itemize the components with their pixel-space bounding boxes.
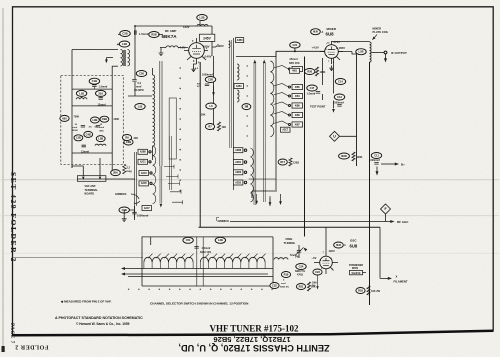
- svg-text:C24: C24: [299, 264, 304, 268]
- wire plate feed: [332, 41, 370, 44]
- capacitor 1.0mmf: [194, 247, 198, 249]
- svg-text:SLEEVE: SLEEVE: [351, 273, 361, 275]
- capacitor C1B: [89, 78, 99, 84]
- capacitor C2B: [120, 31, 130, 37]
- tube V1 6BK7A: [189, 43, 205, 59]
- svg-text:10K: 10K: [222, 126, 227, 129]
- contact box: [290, 68, 300, 73]
- svg-text:CHANNEL SELECTOR SWITCH SHOWN: CHANNEL SELECTOR SWITCH SHOWN IN CHANNEL…: [150, 302, 249, 306]
- capacitor: [82, 145, 86, 147]
- svg-text:C17: C17: [310, 86, 315, 90]
- svg-text:C2B: C2B: [122, 31, 127, 35]
- switch contact 4/B6: [292, 103, 303, 108]
- svg-text:MIXER: MIXER: [373, 27, 382, 31]
- svg-text:4/B4: 4/B4: [295, 95, 301, 98]
- resistor R2B: [149, 32, 159, 38]
- switch output pair wires: [135, 152, 137, 218]
- svg-text:IRON: IRON: [352, 267, 358, 270]
- svg-text:1.0mmf: 1.0mmf: [307, 93, 316, 96]
- svg-text:FILAMENT: FILAMENT: [394, 280, 408, 284]
- rotor contact dots: [247, 65, 248, 66]
- svg-text:6BK7A: 6BK7A: [162, 34, 178, 39]
- capacitor C13 1000mmf: [334, 94, 344, 100]
- capacitor C24: [296, 264, 306, 270]
- svg-text:28A: 28A: [113, 171, 118, 175]
- ground: [159, 50, 164, 56]
- svg-text:230K: 230K: [114, 118, 120, 121]
- svg-text:245V: 245V: [203, 37, 211, 41]
- tube V2 mixer: [325, 45, 339, 59]
- svg-text:R18: R18: [358, 288, 363, 292]
- filament wire: [363, 227, 390, 278]
- wire from frame to strip: [13, 257, 143, 259]
- svg-text:6U8: 6U8: [350, 243, 358, 248]
- wire osc feed: [199, 226, 381, 228]
- svg-text:A2C3: A2C3: [141, 172, 148, 175]
- svg-text:mmf: mmf: [73, 127, 78, 129]
- dashed enclosure: RF tuning strip: [61, 75, 124, 164]
- svg-text:R30: R30: [307, 69, 312, 73]
- svg-text:A3C7: A3C7: [282, 129, 289, 132]
- switch contact boxes A2: [138, 149, 148, 154]
- svg-text:750K: 750K: [74, 116, 80, 119]
- wire antenna feed: [72, 50, 118, 169]
- resistor R7 140K: [205, 124, 214, 130]
- capacitor C17: [307, 85, 317, 91]
- wire: [252, 51, 277, 198]
- svg-text:ZENITH CHASSIS 17B20, Q, U, UD: ZENITH CHASSIS 17B20, Q, U, UD,: [178, 343, 329, 353]
- svg-text:R2B: R2B: [151, 32, 156, 36]
- capacitor C6B: [124, 139, 133, 145]
- switch contact box low: [281, 127, 291, 132]
- contact box top: [236, 38, 244, 43]
- svg-text:22K: 22K: [134, 137, 139, 140]
- svg-text:A: A: [322, 30, 324, 34]
- switch contact 4/B4: [292, 66, 303, 71]
- svg-text:C11: C11: [374, 153, 379, 157]
- svg-text:mmf: mmf: [100, 127, 105, 129]
- wiper pair B: [263, 62, 265, 202]
- svg-text:1.5mmf: 1.5mmf: [139, 32, 149, 36]
- inductor L3B: [74, 135, 83, 141]
- svg-text:2M: 2M: [245, 105, 249, 109]
- svg-text:140V: 140V: [205, 55, 212, 59]
- switch contact 4/B4: [292, 93, 303, 98]
- wire B+ feed column: [212, 41, 218, 56]
- svg-text:A2B8: A2B8: [235, 149, 242, 152]
- capacitor C9: [242, 104, 251, 110]
- svg-text:A: A: [344, 244, 346, 247]
- fold line (light): [1, 179, 499, 181]
- svg-text:L1B: L1B: [79, 91, 84, 95]
- stator contact line right-mid: [250, 148, 253, 202]
- IF output terminal: [372, 52, 385, 54]
- svg-text:A2C5: A2C5: [141, 182, 148, 185]
- RF plate coil (tall): [153, 75, 155, 146]
- svg-text:R9: R9: [125, 135, 129, 139]
- svg-text:FOLDER 2: FOLDER 2: [15, 344, 49, 351]
- wiper pair left with arrow: [160, 166, 162, 203]
- svg-text:TEST POINT: TEST POINT: [310, 105, 326, 109]
- mixer plate coil L20: [370, 42, 372, 62]
- svg-text:140V: 140V: [183, 25, 190, 29]
- osc label 6U8: [334, 242, 344, 248]
- svg-text:X: X: [396, 275, 398, 279]
- svg-text:RF AGC: RF AGC: [397, 220, 409, 224]
- open contact stubs: [164, 165, 183, 205]
- mixer input coil assembly: [233, 38, 235, 190]
- svg-text:12mmf: 12mmf: [98, 103, 106, 106]
- svg-text:3% NPO: 3% NPO: [134, 89, 144, 92]
- svg-text:5%: 5%: [312, 286, 315, 288]
- svg-text:4/B5: 4/B5: [295, 86, 301, 89]
- svg-text:TUNING: TUNING: [284, 241, 296, 245]
- svg-text:L2B: L2B: [359, 50, 364, 54]
- junction dots: [294, 50, 296, 52]
- capacitor C25: [270, 283, 279, 289]
- svg-text:+4.5V: +4.5V: [312, 46, 320, 50]
- svg-text:L25: L25: [138, 104, 143, 108]
- svg-text:470Ω: 470Ω: [297, 274, 303, 277]
- tube V3 oscillator: [320, 256, 333, 269]
- svg-text:C1B: C1B: [92, 79, 97, 83]
- inductor L9B: [91, 117, 100, 123]
- switch shaft bar: [169, 98, 176, 159]
- svg-text:L9B: L9B: [92, 118, 97, 122]
- wiper pair A: [254, 62, 256, 205]
- resistor R19: [281, 272, 290, 278]
- svg-text:OSC: OSC: [350, 239, 357, 243]
- svg-text:L2B: L2B: [122, 42, 127, 46]
- capacitor C9B 1000mmf: [119, 207, 129, 213]
- mixer label: [311, 29, 321, 35]
- svg-text:160V: 160V: [203, 45, 210, 49]
- switch feed bus pair: [230, 40, 232, 148]
- antenna transformer L1: [121, 50, 123, 67]
- wire ground bus: [77, 178, 135, 180]
- svg-text:A2D3: A2D3: [235, 171, 242, 174]
- osc coil: [274, 258, 288, 260]
- svg-text:C13: C13: [337, 95, 342, 99]
- transformer tap arrow: [106, 58, 113, 60]
- grid coil: [166, 46, 178, 48]
- strip baseline: [142, 237, 273, 286]
- scanned page left edge shadow: [2, 8, 4, 352]
- svg-text:A2D5: A2D5: [235, 181, 242, 184]
- coil L6: [206, 103, 216, 109]
- capacitor C21 25mmf: [290, 42, 300, 48]
- svg-text:120V: 120V: [329, 249, 335, 253]
- contact boxes right of coil: [233, 148, 243, 153]
- stator contact line left: [153, 146, 156, 204]
- svg-text:4/B6: 4/B6: [295, 104, 301, 107]
- shaft pair: [169, 136, 171, 190]
- svg-text:L3B: L3B: [76, 136, 81, 140]
- turret coil bank: [144, 257, 193, 262]
- contact box: [234, 84, 244, 89]
- svg-text:1.5mmf: 1.5mmf: [99, 86, 108, 89]
- svg-text:23A: 23A: [98, 91, 103, 95]
- VHF antenna terminal board: [77, 176, 106, 182]
- svg-text:R21: R21: [299, 284, 304, 288]
- long bus to oscillator: [304, 57, 306, 237]
- svg-text:25mmf: 25mmf: [290, 58, 298, 61]
- resistor R30 100K: [305, 69, 315, 75]
- diamond U test jack: [330, 131, 340, 141]
- switch contact 4/B5: [292, 84, 303, 89]
- svg-text:R19: R19: [284, 272, 289, 276]
- svg-text:C4B: C4B: [86, 132, 91, 136]
- inductor L5B: [96, 136, 105, 142]
- svg-text:PAGE 7: PAGE 7: [9, 323, 14, 344]
- svg-text:C21: C21: [293, 43, 298, 47]
- wire: [128, 34, 152, 96]
- stator scalloped contact line: [270, 61, 274, 137]
- svg-text:4/B7: 4/B7: [295, 123, 301, 126]
- svg-text:◆ MEASURED FROM PIN 3 OF VHF.: ◆ MEASURED FROM PIN 3 OF VHF.: [60, 300, 112, 304]
- wire ladder rail left: [111, 66, 113, 172]
- switch wafer lines: [160, 61, 162, 166]
- svg-text:1000mmf: 1000mmf: [333, 101, 344, 104]
- resistor R21 10K: [296, 284, 305, 290]
- svg-text:R7: R7: [208, 124, 212, 128]
- svg-text:GIMMICK: GIMMICK: [115, 192, 127, 196]
- capacitor C9: [100, 116, 109, 122]
- svg-text:1.0mmf: 1.0mmf: [202, 247, 211, 250]
- svg-text:C14: C14: [338, 79, 343, 83]
- diamond F AGC: [381, 204, 391, 214]
- cathode ground: [191, 67, 195, 72]
- svg-text:L2B: L2B: [200, 15, 205, 19]
- svg-text:GIMMICK: GIMMICK: [218, 219, 230, 223]
- svg-text:−5V: −5V: [312, 256, 317, 260]
- capacitor C4B: [84, 131, 93, 137]
- svg-text:C9B: C9B: [102, 117, 107, 121]
- svg-text:N150 10%: N150 10%: [200, 251, 212, 254]
- inductor L1B: [76, 90, 86, 96]
- fold line (light): [1, 252, 499, 254]
- capacitor C11 1000mmf: [371, 153, 381, 159]
- svg-text:120Ω: 120Ω: [293, 162, 299, 165]
- svg-text:C51: C51: [186, 238, 191, 242]
- svg-text:NPO 10%: NPO 10%: [289, 62, 301, 65]
- svg-text:IF OUTPUT: IF OUTPUT: [391, 51, 407, 55]
- B+ arrow: [381, 163, 396, 165]
- svg-text:C23: C23: [315, 270, 320, 274]
- resistor 750K: [60, 115, 69, 121]
- svg-text:A3B0: A3B0: [237, 39, 244, 42]
- B+ box 245V: [200, 34, 215, 41]
- svg-text:4/B1: 4/B1: [292, 70, 298, 73]
- svg-text:A3B1: A3B1: [236, 85, 243, 88]
- wafer contact dots: [179, 67, 181, 69]
- wire top bus: [135, 21, 212, 34]
- svg-text:PLATE COIL: PLATE COIL: [373, 30, 389, 34]
- strip bus lines: [124, 269, 273, 277]
- svg-text:6U8: 6U8: [336, 243, 341, 247]
- wire ladder rungs: [72, 89, 112, 153]
- ground: [329, 66, 333, 71]
- svg-text:L5B: L5B: [98, 137, 103, 141]
- inductor L3B: [215, 237, 225, 243]
- capacitor C14: [335, 79, 345, 85]
- svg-text:VHF TUNER #175-102: VHF TUNER #175-102: [209, 324, 299, 334]
- svg-text:VHF ANT.: VHF ANT.: [85, 184, 97, 188]
- svg-text:A2B8: A2B8: [140, 151, 147, 154]
- svg-text:C28: C28: [208, 77, 213, 81]
- svg-text:N300: N300: [73, 130, 79, 132]
- resistor R9 22K: [122, 135, 131, 141]
- resistor R5 2.2meg: [111, 170, 121, 176]
- channel strip enclosure: [142, 237, 273, 286]
- svg-text:165V: 165V: [339, 46, 346, 50]
- capacitor C51: [183, 237, 193, 243]
- svg-text:A2C1: A2C1: [140, 161, 147, 164]
- svg-text:6U8: 6U8: [326, 32, 335, 37]
- ground: [375, 171, 378, 175]
- switch top rail: [236, 51, 276, 56]
- svg-text:B+: B+: [401, 163, 405, 167]
- svg-text:N330 5%: N330 5%: [280, 287, 289, 289]
- coil L2B on top bus: [197, 24, 208, 26]
- wire transformer bottom tap: [112, 65, 118, 67]
- svg-text:MIXER: MIXER: [327, 27, 337, 31]
- svg-text:mmf: mmf: [281, 283, 286, 285]
- switch contact 4/B6: [292, 112, 303, 117]
- svg-text:6U8: 6U8: [313, 30, 318, 34]
- svg-text:© Howard W. Sams & Co., Inc. 1: © Howard W. Sams & Co., Inc. 1959: [76, 322, 130, 326]
- resistor R16 100K: [339, 153, 350, 159]
- svg-text:C26: C26: [139, 71, 144, 75]
- svg-text:10K 2W: 10K 2W: [371, 290, 381, 293]
- svg-text:6000: 6000: [341, 154, 347, 158]
- svg-text:1000mmf: 1000mmf: [202, 74, 213, 77]
- resistor R18 10K 2W: [356, 288, 365, 294]
- svg-text:A2C7: A2C7: [144, 207, 151, 210]
- wire: [152, 68, 154, 160]
- svg-text:F: F: [384, 207, 386, 211]
- svg-text:1000mmf: 1000mmf: [369, 159, 380, 162]
- resistor R17 120K: [278, 159, 287, 165]
- wire mixer grid: [276, 50, 325, 52]
- svg-text:5mmf: 5mmf: [290, 254, 297, 257]
- svg-text:3%: 3%: [89, 126, 92, 128]
- coil tap leads: [148, 254, 153, 259]
- svg-text:meg: meg: [127, 170, 133, 173]
- svg-text:270V: 270V: [334, 40, 341, 44]
- rivet dots: [128, 288, 130, 290]
- svg-text:100K: 100K: [357, 156, 363, 159]
- svg-text:●+20V: ●+20V: [216, 44, 224, 48]
- svg-text:TERMINAL: TERMINAL: [85, 188, 99, 192]
- coil L8: [237, 90, 239, 102]
- svg-text:5%: 5%: [95, 126, 98, 128]
- wire: [322, 58, 324, 100]
- switch contact 4/B7: [292, 122, 303, 127]
- wire: [118, 34, 163, 36]
- corner printing mark: [2, 346, 5, 352]
- coil: [95, 144, 106, 146]
- capacitor C23: [313, 269, 322, 275]
- svg-text:BOARD: BOARD: [85, 192, 95, 196]
- svg-text:600: 600: [62, 116, 67, 120]
- svg-text:12mmf: 12mmf: [81, 151, 89, 154]
- wire stubs below switch: [249, 179, 276, 206]
- svg-text:SET 429 FOLDER 2: SET 429 FOLDER 2: [9, 172, 18, 263]
- capacitor 23A: [96, 90, 106, 96]
- svg-text:10M: 10M: [312, 283, 317, 285]
- svg-text:R17: R17: [280, 160, 285, 164]
- junction arrow: [213, 86, 215, 92]
- turret coil stub leads: [143, 262, 145, 268]
- svg-text:A PHOTOFACT STANDARD NOTATI: A PHOTOFACT STANDARD NOTATION SCHEMATIC: [55, 316, 143, 320]
- wire mixer plate bus: [356, 54, 358, 166]
- wire mid bus: [199, 62, 201, 227]
- coil L7: [237, 64, 239, 80]
- fine tuning variable capacitor: [297, 251, 301, 253]
- right main bus: [369, 62, 371, 305]
- capacitor branch wire: [333, 59, 335, 109]
- svg-text:1000mmf: 1000mmf: [137, 214, 148, 218]
- fold line (light): [1, 215, 499, 217]
- svg-text:C25: C25: [272, 283, 277, 287]
- svg-text:RF AMP: RF AMP: [165, 29, 176, 33]
- svg-text:4/B6: 4/B6: [295, 114, 301, 117]
- capacitor C6 6.2mmf: [136, 71, 146, 77]
- svg-text:A2D1: A2D1: [235, 161, 242, 164]
- svg-text:L3B: L3B: [218, 238, 223, 242]
